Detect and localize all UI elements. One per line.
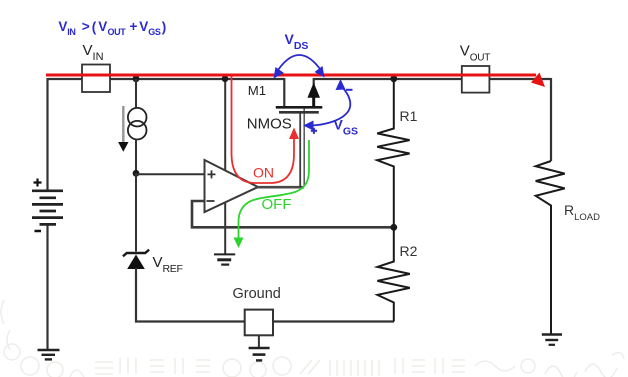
green OFF annotation curve <box>239 140 310 240</box>
svg-text:ON: ON <box>253 165 274 181</box>
resistor R1 <box>377 79 409 227</box>
current source I1 (two circles) <box>128 108 147 127</box>
watermark band <box>1 300 624 377</box>
svg-text:IN: IN <box>67 27 75 37</box>
wire: right rail (output side) <box>314 78 551 80</box>
ground (bottom) <box>249 348 270 360</box>
red current path line <box>46 74 536 77</box>
wire: op-amp output to gate <box>257 186 304 189</box>
op-amp U1 triangle <box>205 160 259 212</box>
svg-text:V: V <box>139 19 148 34</box>
wire: node A to op-amp + input <box>136 173 205 175</box>
svg-text:): ) <box>162 20 167 35</box>
wire: current source branch <box>135 79 137 109</box>
svg-text:(: ( <box>92 20 97 35</box>
battery B1 <box>32 191 63 225</box>
svg-text:V: V <box>98 19 107 34</box>
battery plus sign <box>34 179 42 187</box>
ground (battery) <box>38 350 60 359</box>
node: divider midpoint <box>390 224 397 231</box>
blue VDS arc <box>276 55 322 73</box>
red ON annotation curve <box>232 77 295 184</box>
wire: battery bottom to ground <box>46 225 48 350</box>
wire: left rail (input side) <box>48 78 285 80</box>
node A: reference node junction <box>133 170 140 177</box>
formula VIN > (VOUT + VGS) <box>58 19 166 37</box>
wire: zener to bottom rail <box>136 268 394 322</box>
node: rail to current source junction <box>133 75 140 82</box>
op-amp + sign <box>208 170 216 178</box>
wire: feedback from - input to divider node <box>192 201 394 227</box>
red current path arrowhead <box>531 73 545 88</box>
svg-text:R1: R1 <box>400 108 418 124</box>
svg-text:>: > <box>82 19 90 34</box>
wire: ground box stem <box>258 335 260 348</box>
resistor RLOAD <box>536 161 565 334</box>
svg-text:M1: M1 <box>248 83 266 98</box>
resistor R2 <box>377 227 409 321</box>
svg-text:+: + <box>130 19 138 34</box>
op-amp supply pin wire from rail <box>224 79 226 171</box>
svg-text:NMOS: NMOS <box>247 116 292 133</box>
blue VGS arc <box>310 86 350 126</box>
ground (op-amp) <box>214 254 235 264</box>
wire: rail corner to RLOAD <box>550 78 552 161</box>
svg-text:R2: R2 <box>400 243 418 259</box>
ground (RLOAD) <box>542 335 562 345</box>
drain connection <box>283 78 285 107</box>
transistor M1 NMOS <box>276 78 323 112</box>
gate plate <box>279 111 319 114</box>
VOUT probe box <box>462 66 490 93</box>
wire: node A down to zener <box>135 173 137 251</box>
VGS plus sign <box>311 128 317 134</box>
zener diode VREF <box>123 250 149 269</box>
VGS minus sign <box>346 89 353 91</box>
svg-text:OFF: OFF <box>262 196 292 213</box>
svg-text:V: V <box>58 19 67 34</box>
wire: current source to node A <box>135 139 137 173</box>
VIN probe box <box>82 65 110 93</box>
op-amp - sign <box>207 200 215 202</box>
channel plate <box>276 106 323 109</box>
node: R1 top on rail <box>390 75 397 82</box>
svg-text:GS: GS <box>148 27 161 37</box>
node: op-amp supply junction on rail <box>222 76 229 83</box>
source connection with current arrow <box>313 78 315 107</box>
wire: battery branch down from rail <box>46 78 48 190</box>
op-amp ground pin wire <box>224 202 226 254</box>
ground box (label block) <box>245 310 273 336</box>
current direction arrow (gray shaft) <box>122 106 125 143</box>
battery minus sign <box>35 230 42 233</box>
svg-text:OUT: OUT <box>108 27 127 37</box>
svg-text:Ground: Ground <box>233 286 281 302</box>
